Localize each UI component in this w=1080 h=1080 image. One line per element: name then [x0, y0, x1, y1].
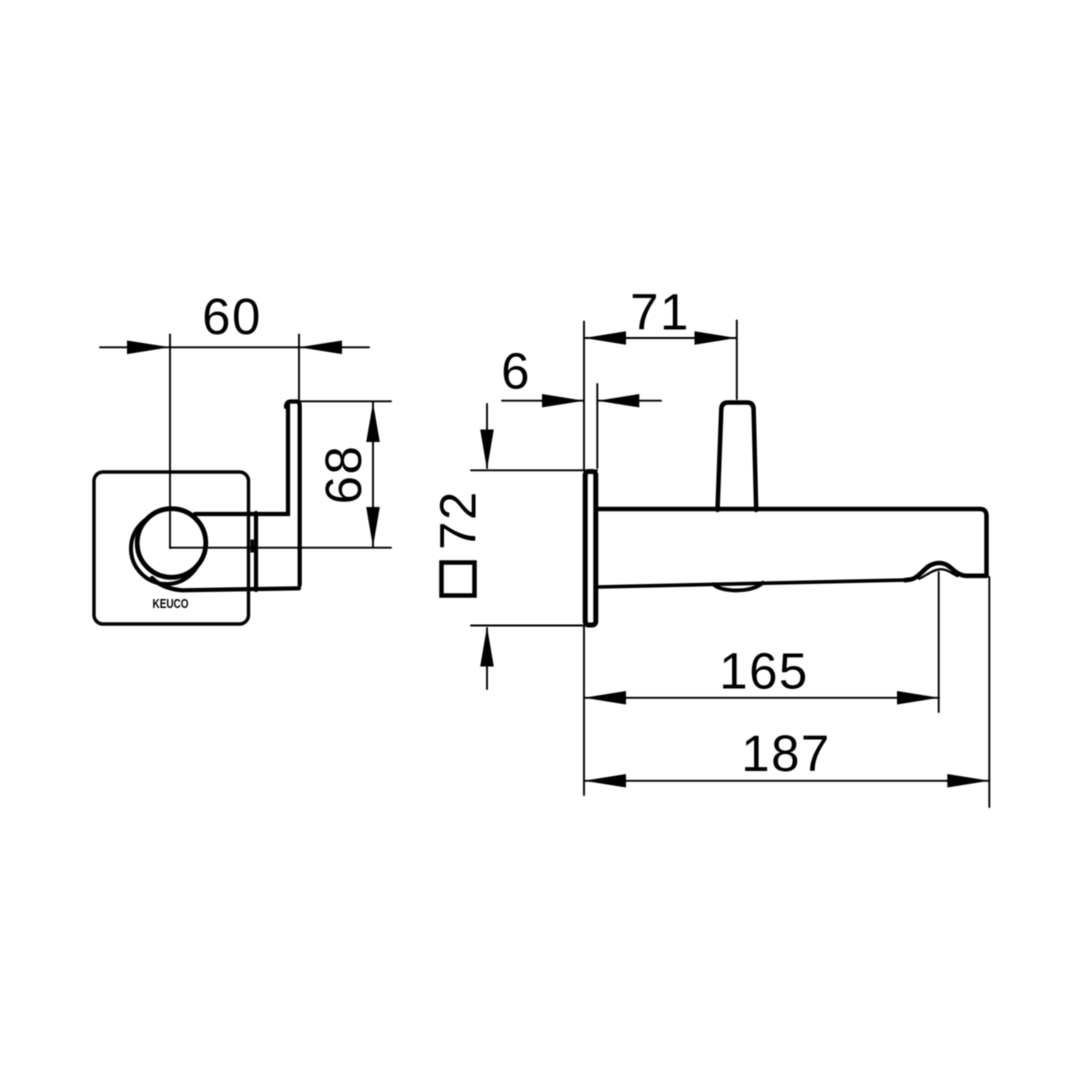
- svg-text:6: 6: [501, 343, 531, 400]
- ext line plate front top: [583, 322, 585, 471]
- knob circle: [137, 509, 206, 578]
- dim 68 ext bottom / knob centerline horizontal: [170, 547, 391, 549]
- spout bottom edge: [598, 580, 907, 587]
- dim 60 ext left / knob centerline vertical: [169, 335, 171, 549]
- dim 60 line: [100, 346, 369, 348]
- dim 72 ext bottom: [471, 625, 583, 627]
- svg-text:165: 165: [719, 643, 809, 700]
- svg-text:187: 187: [741, 725, 831, 782]
- dim 71 ext right: [736, 321, 738, 400]
- dim 68 ext top: [288, 400, 391, 402]
- dim 165 ext right: [938, 572, 940, 712]
- ext line plate front bottom: [583, 626, 585, 795]
- dim 187 ext right: [988, 577, 990, 807]
- dim 72 line top: [486, 404, 488, 468]
- lever base left edge: [254, 513, 258, 590]
- dim 60 ext right: [298, 335, 300, 403]
- knob shadow arc: [131, 513, 202, 584]
- svg-text:60: 60: [202, 288, 262, 345]
- dim 71 line: [584, 337, 737, 339]
- dim 187 arrows (inside): [584, 774, 626, 788]
- dim 72 line bottom: [486, 628, 488, 689]
- dim 60 arrows (outside): [127, 341, 170, 355]
- svg-text:71: 71: [630, 284, 690, 341]
- arrowheads: [127, 331, 989, 787]
- svg-text:72: 72: [430, 490, 487, 550]
- dim 165 arrows (inside): [584, 691, 626, 705]
- spout top and right edge: [598, 509, 987, 576]
- dim 72 arrows (outside): [480, 430, 494, 470]
- lever base top line + bar left edge: [195, 404, 288, 514]
- dim 165 line: [584, 697, 939, 699]
- label 72 square symbol: [442, 563, 475, 596]
- lever base bottom line: [152, 578, 299, 590]
- aerator inner line: [919, 569, 958, 579]
- dim 187 line: [584, 780, 989, 782]
- dim 6 arrows (outside): [542, 394, 584, 407]
- svg-text:68: 68: [315, 445, 372, 505]
- dim 6 ext right: [596, 384, 598, 468]
- joint mark: [251, 540, 254, 553]
- dim 68 arrows (inside): [366, 403, 380, 443]
- svg-text:KEUCO: KEUCO: [153, 596, 189, 611]
- wall plate (front): [94, 472, 249, 624]
- dim 6 line left: [502, 400, 584, 402]
- dimension texts: [202, 284, 831, 783]
- cartridge bump under spout: [714, 583, 763, 591]
- wall plate (side): [585, 472, 596, 626]
- lever bar cap and right edge: [286, 402, 300, 586]
- aerator hump: [905, 563, 987, 580]
- dim 72 ext top: [471, 469, 597, 471]
- dim 6 line right: [597, 400, 661, 402]
- dim 68 line: [372, 402, 374, 547]
- dim 71 arrows (inside): [584, 331, 626, 345]
- lever (side): [718, 403, 757, 511]
